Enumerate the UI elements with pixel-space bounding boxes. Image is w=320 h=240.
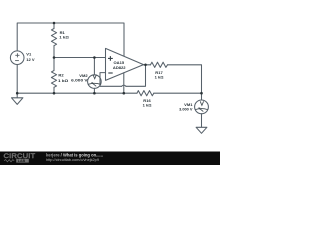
wire VM2 bottom stub xyxy=(93,88,95,93)
node divider mid xyxy=(53,56,56,59)
svg-text:V1: V1 xyxy=(26,51,32,56)
wire VM1 bottom stub xyxy=(201,114,203,128)
resistor R17 xyxy=(151,62,168,67)
wire feedback from output node down and left xyxy=(126,65,146,87)
svg-text:1 kΩ: 1 kΩ xyxy=(143,103,153,108)
VM1 V glyph xyxy=(200,101,203,105)
op-amp non-inverting input mark xyxy=(108,56,113,61)
V1 minus terminal mark xyxy=(15,60,19,62)
op-amp OA15 triangle xyxy=(106,48,144,80)
wire opamp output xyxy=(144,64,151,66)
wire R16 right lead xyxy=(154,92,202,94)
wire top rail xyxy=(17,23,124,56)
wire R1 top lead xyxy=(53,23,55,29)
ground symbol right xyxy=(196,127,207,133)
svg-text:http://circuitlab.com/c/vhejk2: http://circuitlab.com/c/vhejk2p9 xyxy=(46,158,99,162)
wire R2 bottom lead xyxy=(53,87,55,93)
node V- ground xyxy=(123,92,126,95)
node VM2 tap xyxy=(93,56,96,59)
op-amp inverting input mark xyxy=(108,72,112,74)
resistor R16 xyxy=(137,91,154,96)
junction dots xyxy=(16,22,203,95)
VM1 meter scale arc xyxy=(195,109,207,110)
voltmeter VM2 circle xyxy=(88,75,102,89)
labels xyxy=(26,30,193,111)
VM2 V glyph xyxy=(93,75,96,79)
V1 plus terminal mark xyxy=(15,53,19,57)
wire R17 right lead to corner and down to VM1 xyxy=(168,65,202,100)
wire mid rail to opamp + xyxy=(54,57,106,59)
node VM2 ground xyxy=(93,92,96,95)
svg-text:AD822: AD822 xyxy=(113,65,126,70)
footer bar xyxy=(0,152,220,166)
svg-text:1 kΩ: 1 kΩ xyxy=(58,78,69,83)
node R2 ground xyxy=(53,92,56,95)
logo LAB box xyxy=(16,159,29,163)
voltmeter VM1 circle xyxy=(195,100,209,114)
resistor R2 xyxy=(51,71,56,88)
resistor R1 xyxy=(51,29,56,46)
svg-text:12 V: 12 V xyxy=(26,57,35,62)
wire V1 bottom to ground rail xyxy=(16,65,18,98)
VM2 meter needle xyxy=(92,83,96,87)
wire opamp V- pin to ground xyxy=(123,73,125,93)
svg-text:1 kΩ: 1 kΩ xyxy=(155,75,165,80)
node V1 ground xyxy=(16,92,19,95)
wire feedback left segment to minus input xyxy=(100,73,122,87)
svg-text:R2: R2 xyxy=(58,73,64,78)
node opamp output xyxy=(144,64,147,67)
logo zigzag xyxy=(4,160,14,162)
svg-text:1 kΩ: 1 kΩ xyxy=(59,35,69,40)
wire R2 top lead xyxy=(53,58,55,71)
svg-text:kerjere / What is going on....: kerjere / What is going on...... xyxy=(46,152,103,157)
VM1 meter needle xyxy=(199,108,203,112)
wire VM2 top drop xyxy=(93,58,95,75)
svg-text:3.000 V: 3.000 V xyxy=(179,106,193,111)
voltage source V1 circle xyxy=(10,51,24,65)
wire R1 bottom lead xyxy=(53,46,55,58)
node VM1 top xyxy=(200,92,203,95)
wire hop over V- pin xyxy=(122,85,126,86)
wire ground rail xyxy=(17,92,137,94)
VM2 meter scale arc xyxy=(88,83,100,84)
svg-text:6.000 V: 6.000 V xyxy=(71,78,88,83)
node R1 top xyxy=(53,22,56,25)
svg-text:LAB: LAB xyxy=(18,159,26,163)
ground symbol left xyxy=(12,98,23,105)
